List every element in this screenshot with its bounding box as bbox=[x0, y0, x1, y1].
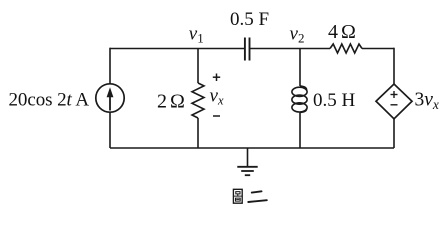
wire left branch upper bbox=[109, 48, 111, 84]
wire top: left corner to capacitor left plate bbox=[110, 48, 244, 50]
svg-text:2Ω: 2Ω bbox=[157, 91, 185, 113]
wire bottom bbox=[110, 147, 394, 149]
svg-text:v1: v1 bbox=[189, 24, 204, 46]
current source I1 arrow bbox=[107, 87, 114, 110]
wire left branch lower bbox=[109, 112, 111, 148]
inductor L 0.5H coil bbox=[292, 86, 307, 113]
polarity plus of vx bbox=[213, 74, 220, 82]
resistor R 2ohm zigzag bbox=[192, 83, 204, 118]
caption glyph 圖 bbox=[233, 189, 242, 203]
svg-text:v2: v2 bbox=[290, 24, 305, 46]
svg-text:3vx: 3vx bbox=[415, 90, 439, 113]
dependent source minus bbox=[391, 104, 398, 106]
polarity minus of vx bbox=[213, 115, 220, 117]
dependent source 3vx diamond bbox=[376, 84, 412, 119]
wire right branch lower bbox=[393, 119, 395, 149]
wire 2ohm branch upper bbox=[197, 49, 199, 84]
wire top: 4ohm resistor to right corner bbox=[362, 48, 394, 50]
svg-text:0.5 H: 0.5 H bbox=[313, 90, 356, 111]
wire inductor branch lower bbox=[299, 113, 301, 149]
wire 2ohm branch lower bbox=[197, 118, 199, 148]
current source I1 circle bbox=[96, 84, 124, 112]
wire inductor branch upper bbox=[299, 49, 301, 87]
resistor R 4ohm zigzag bbox=[330, 44, 362, 53]
wire top: capacitor right plate to 4ohm resistor bbox=[250, 48, 330, 50]
wire right branch upper bbox=[393, 48, 395, 84]
capacitor C 0.5F plates bbox=[245, 38, 250, 61]
svg-text:vx: vx bbox=[210, 86, 224, 108]
ground bbox=[237, 148, 257, 175]
caption glyph 二 bbox=[248, 191, 266, 202]
svg-text:20cos 2t A: 20cos 2t A bbox=[9, 90, 90, 111]
svg-text:0.5 F: 0.5 F bbox=[230, 9, 269, 30]
svg-text:4Ω: 4Ω bbox=[328, 21, 356, 43]
dependent source plus bbox=[391, 91, 398, 98]
